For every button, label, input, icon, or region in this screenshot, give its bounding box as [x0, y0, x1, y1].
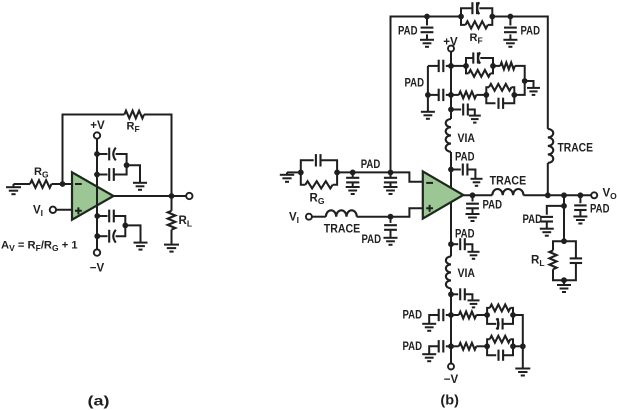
capacitor: (a) +V bypass cap 2 — [108, 168, 110, 181]
terminal: (a) output — [186, 193, 192, 199]
svg-text:+V: +V — [443, 37, 458, 49]
capacitor PAD (non-inv) — [390, 217, 392, 223]
node: RL bottom junction — [561, 277, 567, 283]
label: (a) op-amp plus input — [75, 207, 82, 214]
svg-text:−V: −V — [444, 374, 459, 386]
ground: load pad — [540, 228, 554, 230]
wire: VI to trace — [312, 216, 326, 218]
node: (a) +V bypass node 2 — [94, 172, 100, 178]
capacitor PAD (-V row2 left) — [446, 345, 451, 347]
wire: -V node1 to cap — [97, 215, 107, 217]
wire: (b) top rail — [391, 17, 462, 173]
capacitor: -V RC2 cap — [487, 346, 496, 355]
wire: (b) supply vertical line — [450, 52, 452, 119]
resistor: +V RC1 res — [466, 66, 469, 74]
capacitor PAD (-V row1 left) — [446, 314, 451, 316]
terminal +V (a) — [94, 132, 100, 138]
svg-text:−V: −V — [90, 263, 105, 275]
wire: op-amp output — [463, 194, 492, 196]
capacitor PAD (inv 1) — [352, 172, 354, 177]
wire: (b) right rail lower — [547, 163, 549, 195]
label: (a) op-amp minus input — [75, 183, 82, 185]
wire: VI to plus input — [56, 209, 72, 211]
ground: +V right — [527, 87, 540, 89]
capacitor PAD (inv 2) — [390, 172, 392, 177]
svg-text:TRACE: TRACE — [324, 221, 361, 235]
capacitor: (a) -V bypass cap 2 (polarized) — [108, 230, 110, 243]
node: inverting pad node 2 / feedback junction — [388, 170, 394, 176]
svg-text:PAD: PAD — [455, 150, 475, 164]
svg-text:PAD: PAD — [483, 198, 503, 212]
node: -V right rail junction — [520, 343, 526, 349]
ground: -V right rail — [515, 368, 530, 370]
svg-text:(b): (b) — [440, 392, 459, 408]
node: +V left rail junction — [425, 92, 431, 98]
inductor VIA (top) — [446, 119, 451, 152]
wire: feedback junction to inverting input — [391, 172, 424, 181]
svg-text:+V: +V — [90, 120, 105, 132]
node: +V right junction — [522, 78, 528, 84]
wire: right rail to ground — [522, 346, 524, 368]
node: RG right junction — [334, 170, 340, 176]
svg-text:PAD: PAD — [403, 339, 423, 353]
wire: node1 to RC1 — [451, 65, 466, 67]
node: (a) inverting input junction — [60, 181, 66, 187]
node: RC2 right — [511, 92, 517, 98]
svg-text:PAD: PAD — [590, 202, 610, 216]
node: -V RC2 right — [510, 343, 516, 349]
resistor: -V RC1 res — [487, 308, 490, 315]
node: +V net node 2 — [448, 92, 454, 98]
capacitor PAD (vo) — [579, 195, 581, 203]
inductor VIA (bottom) — [446, 256, 451, 288]
wire: cap2 to junction — [114, 170, 127, 175]
svg-text:TRACE: TRACE — [558, 141, 594, 155]
ground: pad below op-amp — [468, 251, 480, 253]
resistor: -V series res row1 — [451, 314, 459, 316]
terminal -V (a) — [94, 249, 100, 255]
node: load branch junction — [561, 192, 567, 198]
node: (a) -V caps junction — [122, 223, 128, 229]
wire: cap1 to junction — [116, 154, 127, 160]
capacitor PAD (below op-amp) — [451, 243, 458, 245]
capacitor PAD (load) — [541, 216, 553, 218]
svg-text:PAD: PAD — [521, 23, 541, 37]
terminal +V (b) — [448, 46, 454, 52]
node: -V RC2 left — [484, 343, 490, 349]
capacitor: +V RC2 cap — [486, 95, 495, 103]
capacitor: RL parallel cap — [564, 241, 576, 258]
ground: inv pad 2 — [384, 186, 398, 188]
node: (a) -V bypass node 1 — [94, 213, 100, 219]
capacitor: (a) +V bypass cap 1 (polarized) — [108, 148, 110, 161]
wire: cap to junction — [114, 216, 126, 221]
ground: (a) +V bypass ground — [133, 182, 147, 184]
ground: output pad — [466, 213, 480, 215]
svg-text:PAD: PAD — [523, 212, 543, 226]
resistor: -V series res row2 — [451, 345, 459, 347]
capacitor: -V stub cap — [451, 293, 458, 295]
capacitor: RF parallel cap — [461, 8, 472, 16]
inductor TRACE (output) — [492, 189, 523, 195]
svg-text:PAD: PAD — [403, 308, 423, 322]
wire: right junction to ground — [525, 81, 534, 88]
resistor: -V RC2 res — [487, 339, 490, 346]
node: RF left junction — [458, 14, 464, 20]
node: output pad junction — [470, 192, 476, 198]
label: (b) op-amp minus input — [426, 182, 433, 184]
resistor: +V series res row1 — [493, 65, 500, 67]
terminal -V (b) — [448, 364, 454, 370]
terminal VI (a) — [50, 207, 56, 213]
ground: load — [557, 284, 571, 286]
wire: -V node2 to cap — [97, 235, 107, 237]
wire: RG to pads — [337, 171, 390, 173]
node: +V net node 1 — [448, 63, 454, 69]
ground: -V row1 pad — [422, 323, 436, 325]
node: (a) +V caps junction — [124, 162, 130, 168]
resistor RL (a) — [168, 211, 176, 230]
ground: (a) -V bypass ground — [134, 242, 148, 244]
ground: pad above op-amp — [471, 178, 483, 180]
wire: RC2 to right rail — [513, 345, 523, 347]
wire: junction to ground — [125, 225, 140, 242]
capacitor: -V RC1 cap (polarized) — [487, 315, 496, 324]
ground: (b) input ground — [280, 174, 294, 176]
wire: res to RC row1 — [476, 314, 487, 316]
ground: top-right pad — [503, 39, 517, 41]
inductor TRACE (input) — [326, 210, 357, 216]
capacitor PAD (above op-amp) — [451, 169, 461, 171]
node: RL top junction — [561, 238, 567, 244]
wire: cap to junction — [116, 231, 126, 236]
node: RF right junction — [489, 14, 495, 20]
resistor: +V series res row2 — [451, 94, 459, 96]
ground: (a) input ground — [6, 186, 21, 188]
capacitor PAD (top-right) — [509, 17, 511, 26]
resistor RF (a) — [124, 111, 144, 119]
terminal VO — [591, 192, 597, 198]
wire: (a) feedback top rail — [63, 115, 125, 185]
capacitor: (a) -V bypass cap 1 — [108, 210, 110, 223]
ground: inv pad 1 — [346, 186, 360, 188]
wire: (a) output — [114, 195, 187, 197]
ground: non-inv pad — [384, 237, 398, 239]
ground: -V stub — [468, 299, 480, 301]
wire: node2 to cap — [97, 174, 108, 176]
node: RG left junction — [298, 170, 304, 176]
node: top rail pad node right — [508, 14, 514, 20]
node: -V RC1 right — [510, 312, 516, 318]
wire: RL to ground — [171, 230, 173, 245]
wire: res to RC2 — [476, 94, 486, 96]
wire: output to RL — [171, 196, 173, 211]
ground: -V row2 pad — [422, 353, 436, 355]
wire: row1 to right corner — [514, 66, 524, 95]
svg-text:TRACE: TRACE — [490, 174, 527, 188]
node: output pad2 junction — [578, 192, 584, 198]
node: inverting pad node 1 — [350, 170, 356, 176]
svg-text:PAD: PAD — [362, 232, 382, 246]
resistor RG (a) — [30, 180, 52, 188]
wire: output bus — [523, 194, 591, 196]
node: (a) +V bypass node 1 — [94, 151, 100, 157]
resistor: +V RC2 res — [486, 87, 489, 95]
ground: vo pad — [573, 216, 587, 218]
node: non-inverting pad node — [388, 214, 394, 220]
capacitor: RG parallel cap — [301, 160, 314, 172]
node: -V net row 2 — [448, 343, 454, 349]
wire: (a) supply vertical line — [96, 139, 98, 250]
wire: RL to ground — [563, 280, 565, 285]
wire: node1 to cap — [97, 153, 108, 155]
node: feedback/output junction — [545, 192, 551, 198]
capacitor PAD (+V row1 left) — [446, 65, 451, 67]
node: -V net row 1 — [448, 312, 454, 318]
ground: (a) load ground — [164, 244, 179, 246]
resistor RG (b) — [301, 172, 306, 184]
wire: trace to pad node — [357, 216, 391, 218]
node: -V RC1 left — [484, 312, 490, 318]
wire: pad node to plus input — [391, 208, 424, 216]
capacitor PAD (top-left) — [426, 17, 428, 26]
wire: res to RC row2 — [476, 345, 487, 347]
resistor RF (b) — [461, 17, 466, 25]
wire: load pad arm — [547, 206, 564, 215]
svg-text:VIA: VIA — [458, 266, 476, 280]
op-amp A1 (b) — [423, 171, 464, 218]
wire: (a) input to RG — [14, 183, 31, 185]
svg-text:PAD: PAD — [455, 227, 475, 241]
node: load pad junction — [561, 203, 567, 209]
capacitor: +V RC1 cap (polarized) — [466, 58, 473, 66]
svg-text:PAD: PAD — [361, 157, 381, 171]
op-amp A1 (a) — [72, 172, 114, 219]
ground: +V left rail — [421, 111, 435, 113]
wire: junction to ground — [127, 165, 140, 183]
svg-text:VIA: VIA — [458, 131, 476, 145]
node: RC1 left — [463, 63, 469, 69]
node: -V stub node — [448, 291, 454, 297]
ground: top-left pad — [420, 39, 434, 41]
svg-text:PAD: PAD — [405, 76, 425, 90]
node: +V pad node above op-amp — [448, 167, 454, 173]
node: +V net node 3 — [448, 107, 454, 113]
ground: +V stub — [469, 115, 481, 117]
wire: RC1 to right rail — [513, 315, 523, 346]
node: (a) -V bypass node 2 — [94, 233, 100, 239]
wire: load branch down — [563, 195, 565, 241]
node: top rail pad node left — [424, 14, 430, 20]
wire: input ground to RG — [287, 171, 301, 173]
resistor RL (b) — [553, 241, 564, 250]
terminal VI (b) — [306, 214, 312, 220]
label: (b) op-amp plus input — [426, 205, 433, 212]
wire: RG to inverting input — [52, 183, 73, 185]
node: RC1 right — [490, 63, 496, 69]
wire: +V left rail — [427, 66, 429, 112]
inductor TRACE (feedback via) — [548, 129, 553, 163]
capacitor PAD (output) — [472, 195, 474, 201]
svg-text:PAD: PAD — [398, 23, 418, 37]
capacitor: +V stub cap — [451, 109, 461, 111]
node: (a) output junction — [169, 193, 175, 199]
node: RC2 left — [483, 92, 489, 98]
capacitor PAD (+V row2 left) — [446, 94, 451, 96]
svg-text:(a): (a) — [88, 393, 110, 409]
node: -V pad node below op-amp — [448, 241, 454, 247]
